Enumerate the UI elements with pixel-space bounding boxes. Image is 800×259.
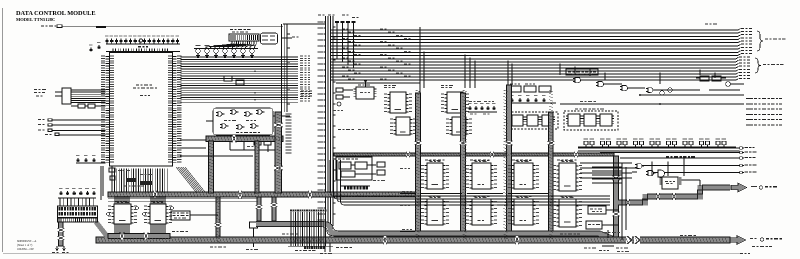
- svg-text:16020M—1SP: 16020M—1SP: [17, 248, 34, 251]
- svg-text:DATA CONTROL MODULE: DATA CONTROL MODULE: [16, 10, 96, 17]
- svg-text:MODEL TTN5128C: MODEL TTN5128C: [16, 17, 55, 22]
- svg-text:66P60902ST—A: 66P60902ST—A: [17, 240, 36, 243]
- svg-text:(Sheet 1 of 7): (Sheet 1 of 7): [17, 244, 32, 247]
